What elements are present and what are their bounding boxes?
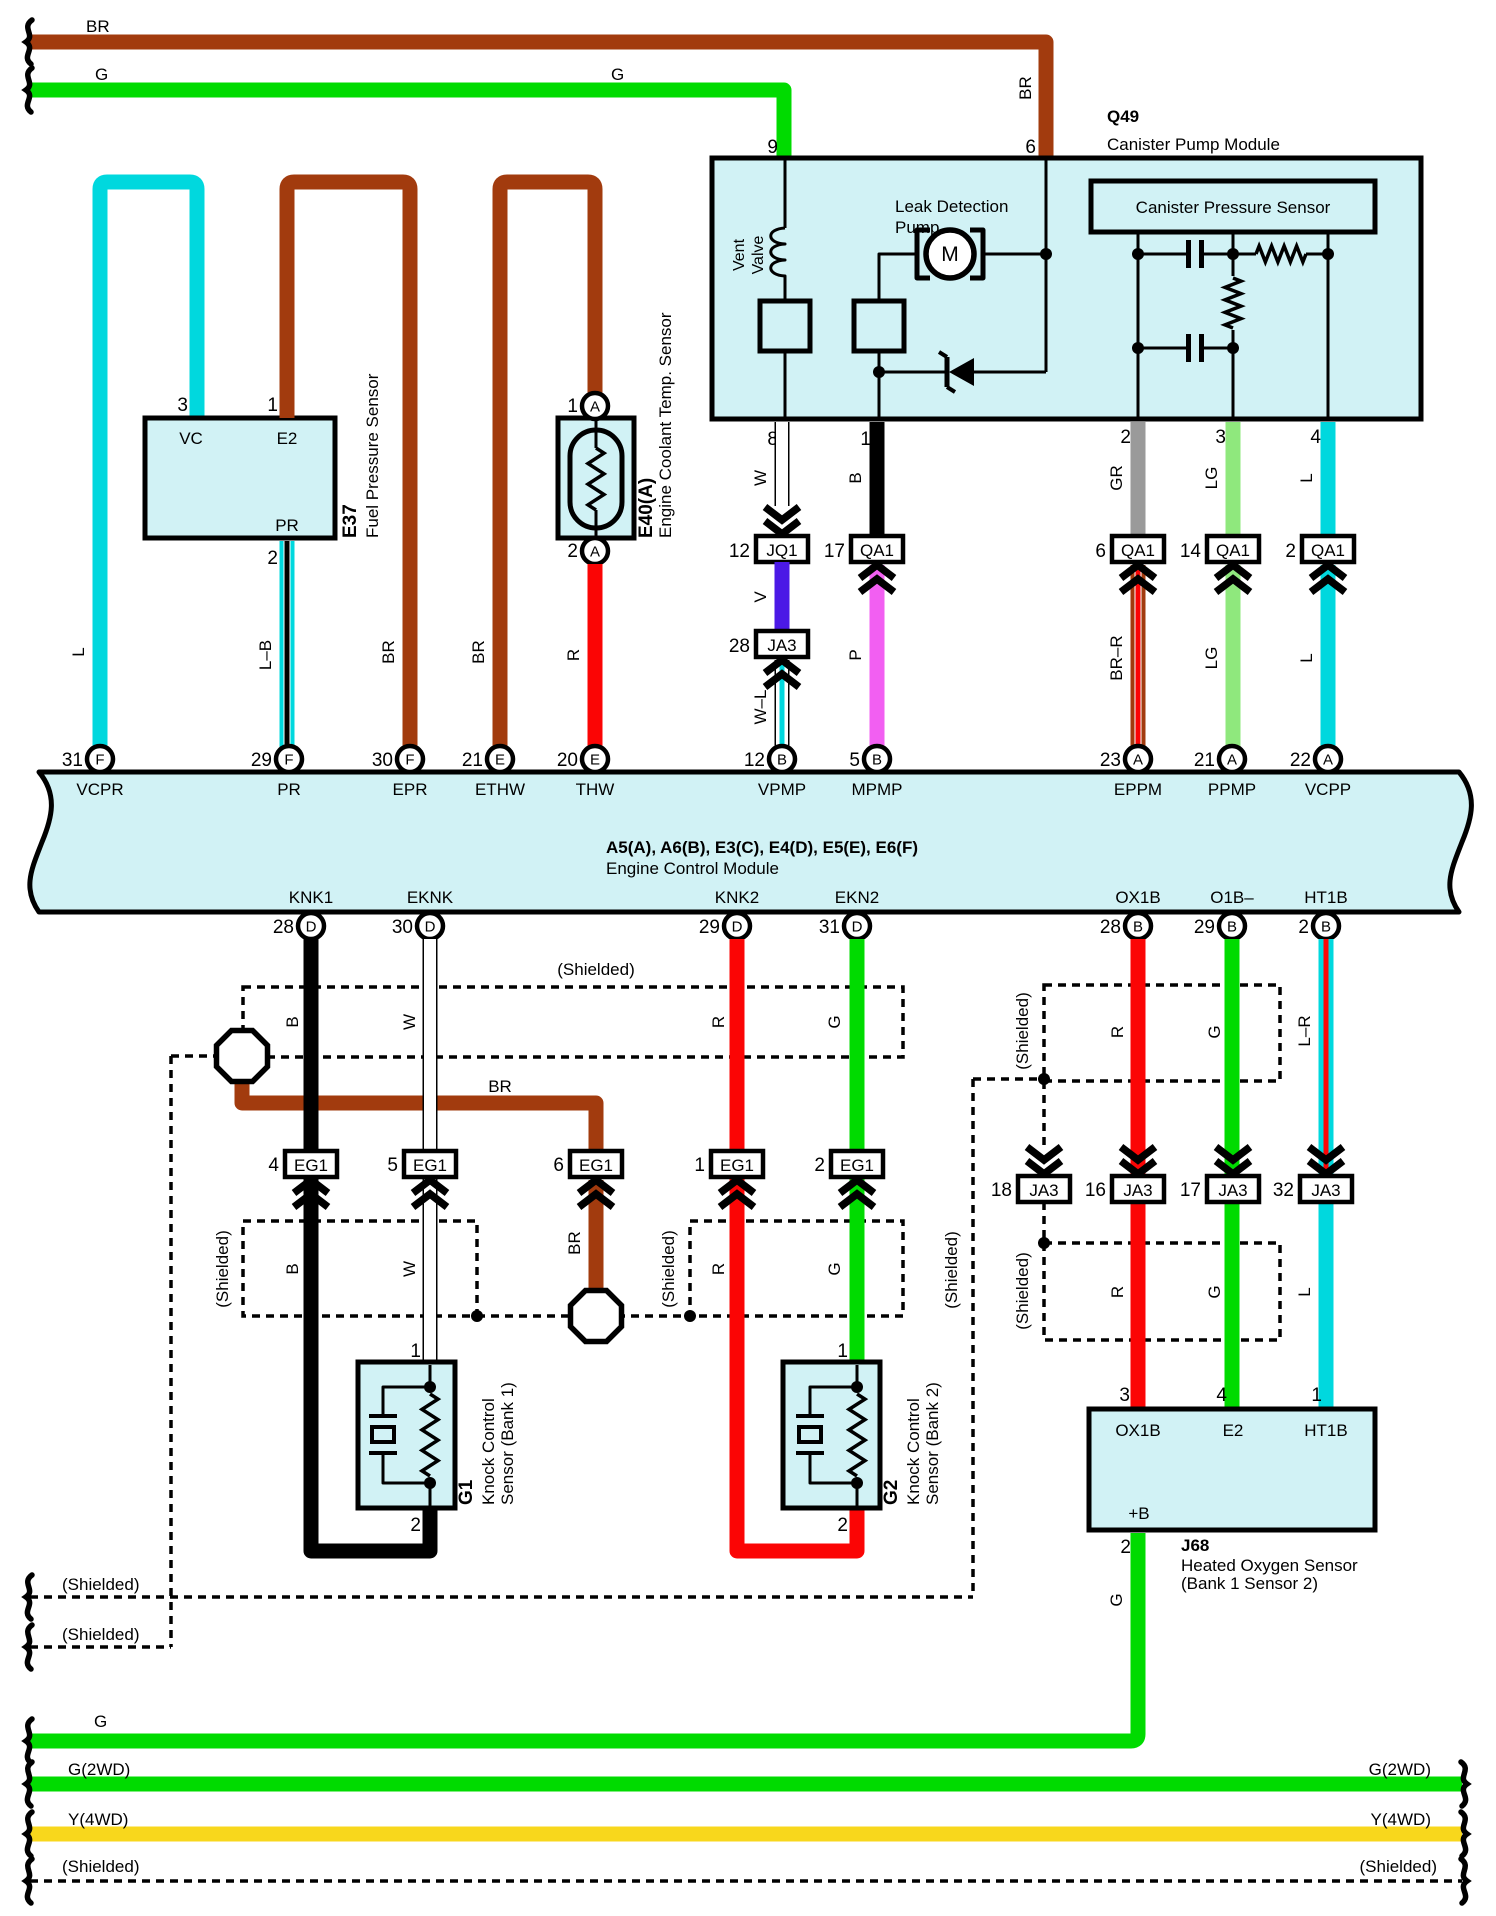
junction dot motor right terminal [1040,248,1052,260]
vent valve driver square [760,301,810,351]
junction dot shield left [471,1310,483,1322]
junction dot right shield [1038,1073,1050,1085]
svg-text:Sensor (Bank 2): Sensor (Bank 2) [923,1382,942,1505]
chevron into JA3 pin 18 [1027,1147,1061,1160]
wire driver square to pin 1 [878,351,881,419]
svg-text:2: 2 [1120,427,1131,448]
svg-text:(Shielded): (Shielded) [942,1231,961,1309]
svg-text:VCPR: VCPR [76,780,123,799]
svg-text:Knock Control: Knock Control [904,1398,923,1505]
svg-text:EG1: EG1 [720,1156,754,1175]
svg-text:A: A [1227,752,1237,769]
svg-text:Heated Oxygen Sensor: Heated Oxygen Sensor [1181,1556,1358,1575]
wire BR from ECM ETHW up and over to E40 pin 1 [500,182,595,765]
shield octagon 1 [217,1031,268,1082]
svg-text:30: 30 [372,750,393,771]
svg-text:3: 3 [1215,427,1226,448]
ECM bottom pin circle B (OX1B) [1125,913,1151,939]
svg-text:A: A [1323,752,1333,769]
chevron out of JA3 [765,660,799,673]
svg-text:R: R [1108,1286,1127,1298]
svg-text:B: B [283,1263,302,1274]
svg-text:G: G [611,65,624,84]
svg-text:G: G [825,1015,844,1028]
dashed shield drain right [973,1077,1044,1081]
wire W-L to ECM VPMP [775,660,790,747]
wire BR from EG1 pin 6 to octagon 2 [589,1180,604,1292]
svg-text:(Bank 1 Sensor 2): (Bank 1 Sensor 2) [1181,1574,1318,1593]
svg-text:2: 2 [1120,1537,1131,1558]
svg-text:OX1B: OX1B [1115,1421,1160,1440]
svg-text:BR–R: BR–R [1107,635,1126,680]
svg-text:KNK1: KNK1 [289,888,333,907]
wire V between JQ1 and JA3 [775,562,790,632]
heated oxygen sensor J68 box [1089,1409,1375,1530]
svg-text:31: 31 [62,750,83,771]
wire BR from E37 E2 over to ECM EPR [287,182,410,765]
wire pin 6 vertical inside module [1045,158,1048,372]
sensor output line left (to pin 2) [1137,232,1140,419]
svg-text:12: 12 [729,541,750,562]
wire BR shield drain to EG1 pin 6 [242,1075,596,1154]
wire GR from Q49 pin 2 [1131,422,1146,537]
svg-text:29: 29 [251,750,272,771]
wire W from Q49 pin 8 [775,422,790,506]
svg-text:1: 1 [860,429,871,450]
svg-text:E: E [590,752,600,769]
dashed link between lower shield boxes [477,1314,690,1318]
wire G(2WD) bottom [30,1777,1462,1792]
brace break symbol BR wire left end [26,20,32,64]
svg-text:1: 1 [1311,1385,1322,1406]
svg-text:KNK2: KNK2 [715,888,759,907]
pull-up resistor horizontal [1233,253,1256,256]
shield box lower-left (B/W) [243,1221,477,1316]
svg-text:17: 17 [1180,1180,1201,1201]
brace drain 1 left [26,1575,32,1619]
dashed shield drain vertical left [169,1056,173,1647]
wire G from J68 +B down and left [30,1533,1138,1741]
svg-text:L: L [1295,1287,1314,1296]
svg-text:G1: G1 [456,1479,477,1505]
svg-text:29: 29 [1194,917,1215,938]
chevron into EG1 pin 5 [413,1180,447,1193]
E40 thermistor element [570,420,622,537]
G2 internal piezo element and resistor [796,1365,865,1506]
svg-text:E: E [495,752,505,769]
svg-text:21: 21 [462,750,483,771]
svg-text:HT1B: HT1B [1304,1421,1347,1440]
svg-text:VPMP: VPMP [758,780,806,799]
knock control sensor G2 box [783,1362,880,1508]
svg-text:V: V [751,591,770,603]
ECM top pin circle A (EPPM) [1125,746,1151,772]
connector QA1 pin 14 [1207,536,1259,562]
ECM top pin circle F (EPR) [397,746,423,772]
wire R from E40 pin 2 to ECM THW [588,564,603,747]
chevron into JA3 pin 32 [1309,1147,1343,1160]
wire L HT1B lower segment to J68 [1319,1199,1334,1411]
svg-text:R: R [564,649,583,661]
svg-text:Canister Pressure Sensor: Canister Pressure Sensor [1136,198,1331,217]
svg-text:B: B [283,1016,302,1027]
svg-text:J68: J68 [1181,1536,1209,1555]
zener diode clamp [879,352,1046,392]
svg-text:QA1: QA1 [1121,541,1155,560]
svg-text:(Shielded): (Shielded) [1013,1252,1032,1330]
svg-text:3: 3 [177,395,188,416]
svg-text:MPMP: MPMP [852,780,903,799]
svg-text:5: 5 [387,1155,398,1176]
svg-text:B: B [777,752,787,769]
ECM top pin circle E (THW) [582,746,608,772]
svg-text:W: W [400,1261,419,1277]
shield box lower-right (R/G) [690,1221,903,1316]
svg-text:G: G [1107,1593,1126,1606]
svg-text:Knock Control: Knock Control [479,1398,498,1505]
svg-text:23: 23 [1100,750,1121,771]
svg-text:1: 1 [267,395,278,416]
svg-text:D: D [852,919,863,936]
chevron into EG1 pin 2 [840,1180,874,1193]
svg-text:1: 1 [567,396,578,417]
svg-text:(Shielded): (Shielded) [62,1575,140,1594]
shield drain bottom dashed [30,1879,1462,1883]
svg-text:G: G [94,1712,107,1731]
svg-text:(Shielded): (Shielded) [659,1230,678,1308]
wire L-B from E37 PR to ECM PR [280,541,295,747]
brace G(2WD) right [1461,1762,1467,1806]
svg-text:G: G [1205,1285,1224,1298]
svg-text:28: 28 [1100,917,1121,938]
canister pump module Q49 box [712,158,1421,419]
wire LG to ECM PPMP [1226,565,1241,747]
connector JQ1 pin 12 [756,536,808,562]
brace Y(4WD) right [1461,1812,1467,1856]
pump driver square [854,301,904,351]
ECM bottom pin circle B (O1B–) [1219,913,1245,939]
leak detection pump motor M [917,230,983,278]
ECM top pin circle F (VCPR) [87,746,113,772]
svg-text:EG1: EG1 [840,1156,874,1175]
svg-text:GR: GR [1107,465,1126,491]
svg-text:A: A [590,399,600,416]
wire B KNK1 from ECM to G1 pin 2 [311,939,430,1551]
G1 internal piezo element and resistor [369,1365,438,1506]
ECM top pin circle A (PPMP) [1219,746,1245,772]
svg-text:G(2WD): G(2WD) [68,1760,130,1779]
connector JA3 pin 28 [756,631,808,657]
ECM bottom pin circle D (EKN2) [844,913,870,939]
shielded drain line 2 (dashed) [30,1645,171,1649]
wire motor right terminal [984,253,1046,256]
svg-text:A: A [1133,752,1143,769]
svg-text:EG1: EG1 [579,1156,613,1175]
svg-text:EKN2: EKN2 [835,888,879,907]
svg-text:F: F [95,752,104,769]
filter capacitor lower [1138,334,1233,362]
svg-text:B: B [846,472,865,483]
shield box right lower (R/G) [1044,1243,1280,1340]
wire G (top horizontal) [30,90,784,160]
connector pin circle A (E40 pin 2) [582,538,608,564]
svg-text:20: 20 [557,750,578,771]
wire L from Q49 pin 4 [1321,422,1336,537]
svg-text:EPPM: EPPM [1114,780,1162,799]
wire B from Q49 pin 1 [870,422,885,537]
svg-text:1: 1 [837,1341,848,1362]
svg-text:A: A [590,544,600,561]
ECM top pin circle B (MPMP) [864,746,890,772]
svg-text:JA3: JA3 [1218,1181,1247,1200]
connector JA3 pin 17 [1207,1176,1259,1202]
svg-text:O1B–: O1B– [1210,888,1254,907]
svg-text:(Shielded): (Shielded) [62,1857,140,1876]
svg-text:JA3: JA3 [1123,1181,1152,1200]
junction dot CPS right upper [1322,248,1334,260]
svg-text:3: 3 [1119,1385,1130,1406]
junction dot at zener branch [873,366,885,378]
sensor output line right (to pin 4) [1327,232,1330,419]
vent valve branch (pin 9 to pin 8) [771,158,785,301]
dashed drain to JA3 pin 18 [1042,1081,1046,1150]
shielded drain line 1 (dashed) [30,1595,973,1599]
svg-text:A5(A), A6(B), E3(C), E4(D), E5: A5(A), A6(B), E3(C), E4(D), E5(E), E6(F) [606,838,918,857]
wire BR-R to ECM EPPM [1131,565,1146,747]
engine coolant temp sensor E40 box [558,418,634,538]
connector EG1 pin 6 [570,1151,622,1177]
connector EG1 pin 5 [404,1151,456,1177]
shield octagon 2 [571,1291,622,1342]
chevron into EG1 pin 1 [720,1180,754,1193]
wire BR (battery feed, top horizontal) [30,42,1046,160]
dashed shield drain to octagon 1 [171,1054,217,1058]
svg-text:JA3: JA3 [767,636,796,655]
svg-text:L: L [1297,473,1316,482]
svg-text:BR: BR [379,640,398,664]
svg-text:28: 28 [273,917,294,938]
ECM bottom pin circle D (EKNK) [417,913,443,939]
connector EG1 pin 1 [711,1151,763,1177]
svg-text:B: B [1321,919,1331,936]
svg-text:12: 12 [744,750,765,771]
junction dot CPS left lower [1132,342,1144,354]
svg-text:Y(4WD): Y(4WD) [1371,1810,1431,1829]
svg-text:2: 2 [267,548,278,569]
filter capacitor upper [1138,240,1233,268]
svg-text:JQ1: JQ1 [766,541,797,560]
ECM top pin circle A (VCPP) [1315,746,1341,772]
svg-text:2: 2 [410,1515,421,1536]
ECM top pin circle E (ETHW) [487,746,513,772]
svg-text:B: B [1133,919,1143,936]
svg-text:B: B [1227,919,1237,936]
ECM bottom pin circle D (KNK1) [298,913,324,939]
svg-text:THW: THW [576,780,615,799]
svg-text:EKNK: EKNK [407,888,454,907]
connector QA1 pin 17 [851,536,903,562]
connector QA1 pin 6 [1112,536,1164,562]
svg-text:4: 4 [1216,1385,1227,1406]
junction dot CPS left upper [1132,248,1144,260]
wire motor left terminal to driver square [879,254,916,301]
canister pressure sensor box [1091,181,1375,232]
brace G bottom left [26,1719,32,1763]
svg-text:VCPP: VCPP [1305,780,1351,799]
svg-text:(Shielded): (Shielded) [557,960,635,979]
svg-text:Q49: Q49 [1107,107,1139,126]
svg-text:21: 21 [1194,750,1215,771]
svg-text:L–B: L–B [256,640,275,670]
svg-text:6: 6 [553,1155,564,1176]
svg-text:Y(4WD): Y(4WD) [68,1810,128,1829]
chevron out of QA1 pin 2 [1311,565,1345,578]
svg-text:6: 6 [1095,541,1106,562]
svg-text:ETHW: ETHW [475,780,525,799]
svg-text:EG1: EG1 [294,1156,328,1175]
connector EG1 pin 2 [831,1151,883,1177]
svg-text:PPMP: PPMP [1208,780,1256,799]
svg-text:R: R [709,1263,728,1275]
svg-text:E2: E2 [1223,1421,1244,1440]
svg-text:QA1: QA1 [1311,541,1345,560]
wire R OX1B from ECM to J68 [1131,939,1146,1411]
wire L from ECM VCPR up and over to E37 VC [100,182,197,765]
svg-text:(Shielded): (Shielded) [213,1230,232,1308]
svg-text:BR: BR [1016,76,1035,100]
brace shield bottom right [1461,1859,1467,1903]
svg-text:HT1B: HT1B [1304,888,1347,907]
connector JA3 pin 18 [1018,1176,1070,1202]
svg-text:D: D [425,919,436,936]
svg-text:2: 2 [837,1515,848,1536]
svg-text:G(2WD): G(2WD) [1369,1760,1431,1779]
svg-text:Sensor (Bank 1): Sensor (Bank 1) [498,1382,517,1505]
wire L-R HT1B from ECM to JA3 [1319,939,1334,1176]
wire G O1B- from ECM to J68 [1225,939,1240,1411]
svg-text:17: 17 [824,541,845,562]
svg-text:(Shielded): (Shielded) [1013,992,1032,1070]
svg-text:16: 16 [1085,1180,1106,1201]
svg-text:14: 14 [1180,541,1202,562]
svg-text:32: 32 [1273,1180,1294,1201]
svg-text:2: 2 [1298,917,1309,938]
knock control sensor G1 box [358,1362,455,1508]
chevron into JA3 pin 16 [1121,1147,1155,1160]
svg-text:L: L [69,647,88,656]
svg-text:(Shielded): (Shielded) [1360,1857,1438,1876]
wire LG from Q49 pin 3 [1226,422,1241,537]
svg-text:Fuel Pressure Sensor: Fuel Pressure Sensor [363,373,382,538]
chevron into EG1 pin 6 [579,1180,613,1193]
svg-text:EPR: EPR [393,780,428,799]
svg-text:QA1: QA1 [860,541,894,560]
svg-text:(Shielded): (Shielded) [62,1625,140,1644]
svg-text:Leak Detection: Leak Detection [895,197,1008,216]
svg-text:BR: BR [86,17,110,36]
dashed shield drain vertical right [971,1079,975,1597]
chevron out of QA1 pin 17 [860,565,894,578]
chevron into EG1 pin 4 [294,1180,328,1193]
svg-text:4: 4 [1310,427,1321,448]
fuel pressure sensor E37 box [145,418,335,538]
svg-text:18: 18 [991,1180,1012,1201]
svg-text:G2: G2 [881,1480,902,1505]
svg-text:Valve: Valve [750,235,767,274]
svg-text:2: 2 [814,1155,825,1176]
svg-text:BR: BR [565,1231,584,1255]
ECM bottom pin circle B (HT1B) [1313,913,1339,939]
connector pin circle A (E40 pin 1) [582,393,608,419]
sensor output line middle (to pin 3) [1225,232,1241,419]
wire L to ECM VCPP [1321,565,1336,747]
junction dot shield right [684,1310,696,1322]
svg-text:F: F [284,752,293,769]
svg-text:M: M [941,243,959,266]
svg-text:G: G [1205,1025,1224,1038]
wire P to ECM MPMP [870,565,885,747]
ECM top pin circle B (VPMP) [769,746,795,772]
svg-text:E37: E37 [340,504,361,538]
chevron into JA3 pin 17 [1216,1147,1250,1160]
svg-text:30: 30 [392,917,413,938]
connector JA3 pin 16 [1112,1176,1164,1202]
svg-text:JA3: JA3 [1311,1181,1340,1200]
wire W EKNK from ECM to G1 pin 1 [423,939,438,1365]
svg-text:L: L [1297,653,1316,662]
shield box right upper (R/G) [1044,985,1280,1081]
svg-text:QA1: QA1 [1216,541,1250,560]
svg-text:+B: +B [1128,1504,1149,1523]
svg-text:1: 1 [410,1341,421,1362]
svg-text:D: D [732,919,743,936]
svg-text:JA3: JA3 [1029,1181,1058,1200]
svg-text:4: 4 [268,1155,279,1176]
svg-text:E40(A): E40(A) [636,478,657,538]
svg-text:31: 31 [819,917,840,938]
svg-text:F: F [405,752,414,769]
svg-text:OX1B: OX1B [1115,888,1160,907]
junction dot CPS mid lower [1227,342,1239,354]
wire G EKN2 from ECM to G2 pin 1 [850,939,865,1365]
chevron out of QA1 pin 14 [1216,565,1250,578]
engine control module band [30,772,1472,912]
svg-text:G: G [95,65,108,84]
brace drain 2 left [26,1625,32,1669]
wire vent valve square to pin 8 [784,351,787,419]
svg-text:G: G [825,1262,844,1275]
wire R KNK2 from ECM to G2 pin 2 [737,939,857,1551]
svg-text:W: W [751,470,770,486]
connector JA3 pin 32 [1300,1176,1352,1202]
svg-text:2: 2 [567,541,578,562]
svg-text:2: 2 [1285,541,1296,562]
junction dot right lower shield [1038,1237,1050,1249]
ECM top pin circle F (PR) [276,746,302,772]
connector QA1 pin 2 [1302,536,1354,562]
connector EG1 pin 4 [285,1151,337,1177]
brace G(2WD) left [26,1762,32,1806]
svg-text:Canister Pump Module: Canister Pump Module [1107,135,1280,154]
svg-text:PR: PR [277,780,301,799]
svg-text:28: 28 [729,636,750,657]
svg-text:BR: BR [469,640,488,664]
svg-text:5: 5 [849,750,860,771]
svg-text:W: W [400,1014,419,1030]
chevron into JQ1 [765,507,799,520]
brace break symbol G wire left end [26,68,32,112]
svg-text:R: R [709,1016,728,1028]
